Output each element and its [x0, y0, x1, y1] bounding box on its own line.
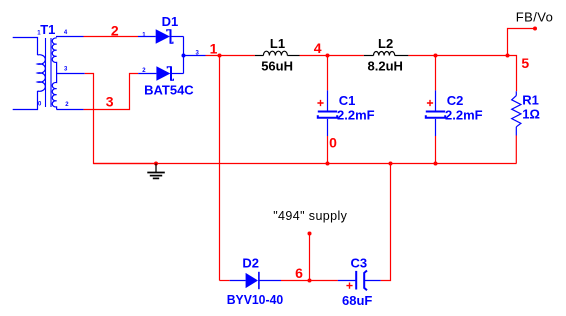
transformer T1	[13, 37, 85, 110]
diode D1 bottom (BAT54C half)	[138, 56, 183, 81]
diode D1 top (BAT54C half)	[138, 29, 184, 55]
svg-text:2.2mF: 2.2mF	[445, 108, 483, 123]
junction D1 common cathode	[182, 54, 186, 58]
svg-text:3: 3	[106, 94, 114, 110]
svg-text:6: 6	[295, 265, 303, 281]
plus C2	[427, 100, 433, 106]
svg-text:T1: T1	[40, 22, 55, 37]
svg-text:68uF: 68uF	[342, 293, 372, 308]
capacitor C1	[318, 90, 337, 136]
wire T1 pin 4 lead	[57, 36, 84, 39]
wire C1 top to net4	[327, 56, 329, 91]
svg-text:FB/Vo: FB/Vo	[516, 11, 554, 25]
svg-text:L1: L1	[270, 36, 285, 51]
T1 secondary winding B	[52, 74, 56, 110]
junction ground symbol	[154, 162, 158, 166]
wire net 1 (D1 out to L1)	[206, 55, 255, 57]
svg-text:1Ω: 1Ω	[522, 106, 540, 121]
wire primary top lead	[13, 38, 38, 56]
wire T1 pin 2 lead	[57, 109, 84, 111]
node 494 supply endpoint dot	[308, 232, 312, 236]
wire C2 top to net	[435, 56, 437, 91]
junction node 6	[308, 279, 312, 283]
wire C1 bottom to ground rail	[327, 136, 329, 164]
wire T1 pin 3 lead	[57, 73, 85, 75]
plus C3	[346, 283, 352, 289]
capacitor C2	[426, 90, 445, 136]
node FB/Vo endpoint dot	[533, 27, 537, 31]
wire T1 pin2 to D1 pin2	[84, 74, 139, 110]
T1 primary winding	[38, 55, 46, 92]
junction C1 bottom	[326, 162, 330, 166]
svg-text:5: 5	[521, 55, 529, 71]
wire L2 to right corner and down to R1	[408, 56, 516, 92]
resistor R1	[512, 91, 521, 135]
wire 494 supply stub	[309, 234, 311, 281]
wire D1 pin3 lead	[184, 55, 206, 57]
wire net 2 (T1 pin4 to D1 pin1)	[84, 36, 139, 38]
svg-text:C1: C1	[339, 93, 356, 108]
svg-text:56uH: 56uH	[261, 58, 293, 73]
wire FB/Vo stub	[508, 29, 536, 56]
plus C1	[317, 100, 323, 106]
ground	[147, 164, 165, 179]
junction C2 top	[434, 54, 438, 58]
svg-text:C2: C2	[447, 93, 464, 108]
junction FB stub	[506, 54, 510, 58]
inductor L1	[255, 51, 300, 55]
capacitor C3	[338, 271, 381, 291]
junction C2 bottom	[434, 162, 438, 166]
wire net 6 (D2 cathode to C3)	[281, 280, 338, 282]
junction bottom loop riser	[389, 162, 393, 166]
svg-text:BYV10-40: BYV10-40	[227, 292, 284, 307]
wire bottom loop left (node1 corner to D2)	[220, 280, 230, 282]
inductor L2	[364, 52, 409, 56]
svg-text:"494" supply: "494" supply	[273, 209, 347, 223]
svg-text:D1: D1	[162, 14, 179, 29]
svg-text:4: 4	[314, 40, 322, 56]
wire node1 down to bottom loop	[219, 56, 221, 281]
wire net 3 center tap to ground rail	[85, 74, 156, 164]
svg-text:1: 1	[210, 40, 218, 56]
junction node 1	[218, 54, 222, 58]
svg-text:D2: D2	[242, 256, 259, 271]
svg-text:BAT54C: BAT54C	[144, 82, 194, 97]
wire primary bottom lead	[13, 91, 38, 110]
T1 secondary winding A	[52, 38, 56, 74]
ground rail wire	[94, 163, 517, 165]
svg-text:0: 0	[329, 135, 337, 151]
diode D2	[230, 272, 281, 289]
svg-text:8.2uH: 8.2uH	[368, 58, 403, 73]
T1 core line left	[45, 38, 47, 107]
wire net 4 (L1 to L2)	[300, 55, 364, 57]
svg-text:C3: C3	[351, 255, 368, 270]
T1 core line right	[50, 38, 52, 107]
wire riser ground rail to bottom loop	[381, 164, 391, 281]
wire R1 bottom to ground rail	[515, 136, 517, 164]
svg-text:2: 2	[111, 22, 119, 38]
svg-text:2.2mF: 2.2mF	[337, 108, 375, 123]
junction node 4	[326, 54, 330, 58]
wire C2 bottom to ground rail	[435, 136, 437, 164]
svg-text:L2: L2	[378, 36, 393, 51]
